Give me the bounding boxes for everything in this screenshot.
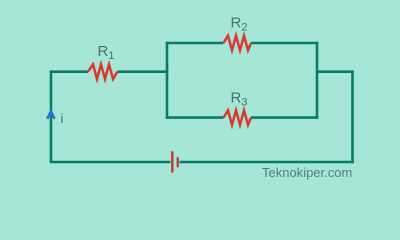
svg-text:Teknokiper.com: Teknokiper.com xyxy=(262,165,352,180)
wire: bottom horizontal left of battery xyxy=(50,161,171,164)
battery V1: short plate xyxy=(177,157,179,167)
current arrow i (blue chevron on left wire) xyxy=(47,111,54,118)
wire: left vertical (node A to bottom-left corner) xyxy=(50,71,53,163)
wire: outer right vertical xyxy=(351,71,354,164)
svg-text:i: i xyxy=(61,111,64,126)
resistor R1 xyxy=(88,64,118,79)
wire: top-left horizontal from left vertical to resistor R1 xyxy=(50,70,88,73)
resistor R3 xyxy=(224,110,252,125)
wire: middle horizontal from box to outer right vertical xyxy=(317,70,354,73)
battery V1: long plate xyxy=(171,151,173,172)
wire: bottom horizontal right of battery xyxy=(179,161,353,164)
wire: parallel box left vertical xyxy=(166,42,169,119)
resistor R2 xyxy=(224,36,252,51)
wire: bottom branch with gap for R3 xyxy=(166,116,319,119)
wire: parallel box right vertical xyxy=(316,42,319,119)
wire: from R1 to parallel box left vertical xyxy=(118,70,169,73)
wire: top branch with gap for R2 xyxy=(166,42,319,45)
